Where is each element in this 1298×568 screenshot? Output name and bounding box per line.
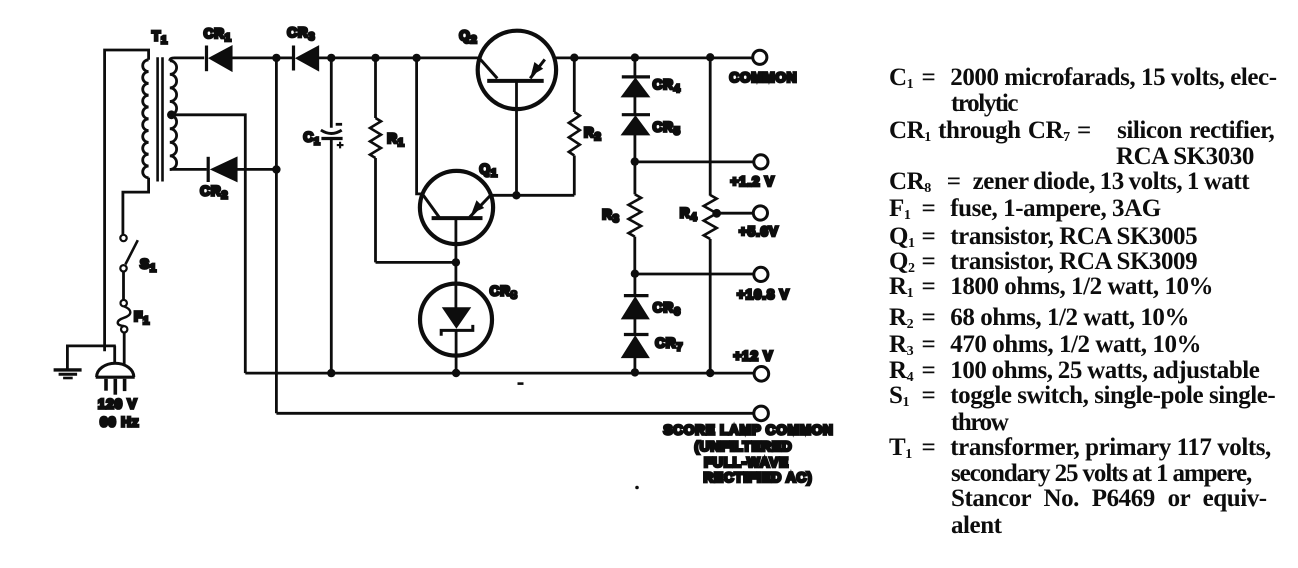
- svg-text:Q2: Q2: [459, 28, 477, 46]
- svg-text:T1: T1: [152, 28, 168, 46]
- resistor R4: [704, 57, 717, 373]
- resistor R2: [569, 58, 580, 195]
- stray mark 2: [635, 486, 639, 490]
- svg-text:R1: R1: [387, 131, 404, 149]
- wire top rail to Q1 left lead: [417, 58, 422, 194]
- wire CR4 to CR5: [634, 97, 637, 115]
- node secondary center tap: [167, 110, 176, 119]
- transformer primary winding: [143, 60, 149, 178]
- wire ground tap: [67, 346, 115, 369]
- svg-text:S1: S1: [140, 256, 157, 274]
- resistor R3: [629, 194, 642, 273]
- wire secondary bottom lead: [170, 168, 207, 171]
- terminal +5.6V: [753, 206, 767, 220]
- switch S1: [120, 235, 138, 272]
- transistor Q1: [420, 171, 493, 244]
- wire Q1 base lead down to CR8: [454, 218, 457, 308]
- wire score lamp line: [276, 412, 753, 415]
- node R4 tap: [712, 209, 721, 218]
- svg-text:+5.6V: +5.6V: [739, 224, 779, 239]
- wire bottom rail +12V: [245, 372, 754, 375]
- node junction top rail x276: [272, 54, 280, 62]
- wire primary bottom lead: [123, 178, 149, 235]
- zener diode CR8: [420, 284, 492, 373]
- terminal +10.8V: [754, 267, 768, 281]
- node junction bottom rail CR8: [452, 369, 460, 377]
- node junction top rail R1: [371, 54, 379, 62]
- wire top rail CR3 to Q2: [318, 57, 478, 60]
- wire unfiltered DC vertical x276: [275, 58, 278, 413]
- wire top rail Q2 to COMMON terminal: [555, 57, 752, 60]
- svg-text:(UNFILTERED: (UNFILTERED: [695, 439, 793, 454]
- wire F1 to plug: [123, 333, 126, 367]
- svg-text:120 V: 120 V: [98, 397, 137, 412]
- diode CR7: [622, 335, 648, 358]
- svg-text:F1: F1: [134, 309, 150, 327]
- wire Q1 emitter to R2 bottom: [491, 194, 574, 197]
- svg-text:R3: R3: [602, 207, 619, 225]
- svg-text:CR6: CR6: [653, 300, 681, 318]
- wire CR1 to CR3: [232, 57, 292, 60]
- svg-text:C1: C1: [304, 129, 321, 147]
- wire primary top lead: [105, 50, 149, 351]
- node junction top rail Q1 branch: [412, 54, 420, 62]
- wire CR7 to bottom rail: [634, 357, 637, 372]
- capacitor C1: [321, 58, 344, 373]
- svg-text:RECTIFIED AC): RECTIFIED AC): [704, 470, 813, 485]
- node junction +1.2V: [631, 157, 639, 165]
- svg-text:+12 V: +12 V: [734, 348, 774, 363]
- diode CR6: [622, 274, 648, 319]
- svg-text:CR8: CR8: [490, 284, 518, 302]
- terminal +1.2V: [754, 155, 768, 169]
- wire CR6 to CR7: [634, 319, 637, 335]
- diode CR2: [208, 157, 237, 182]
- node junction Q2 collector: [512, 191, 520, 199]
- transformer core: [158, 57, 163, 181]
- fuse F1: [118, 300, 131, 333]
- stray mark 1: [518, 382, 524, 385]
- svg-text:+1.2 V: +1.2 V: [731, 174, 775, 189]
- svg-text:CR3: CR3: [287, 25, 315, 43]
- svg-text:R2: R2: [584, 125, 601, 143]
- wire CR5 to R3: [634, 135, 637, 195]
- node junction top rail R4: [706, 53, 714, 61]
- node junction top rail C1: [327, 54, 335, 62]
- diode CR1: [207, 46, 232, 72]
- node junction R1 Q1: [452, 258, 460, 266]
- PARTS LIST: [889, 65, 1277, 90]
- wire center tap to bottom rail: [171, 115, 245, 373]
- svg-text:CR2: CR2: [200, 184, 228, 202]
- svg-text:+10.8 V: +10.8 V: [737, 287, 790, 302]
- wire R1 bottom to Q1 base node: [376, 261, 456, 264]
- svg-text:CR7: CR7: [655, 336, 683, 354]
- svg-text:CR1: CR1: [204, 26, 232, 44]
- wire secondary top lead: [170, 58, 204, 61]
- wire +10.8V line: [635, 273, 754, 276]
- node junction +10.8V: [631, 270, 639, 278]
- svg-text:SCORE LAMP COMMON: SCORE LAMP COMMON: [664, 422, 834, 437]
- wire plug left lead: [113, 346, 116, 366]
- svg-text:CR5: CR5: [653, 120, 681, 138]
- node junction bottom rail CR7: [631, 368, 639, 376]
- node junction CR2: [272, 165, 280, 173]
- resistor R1: [370, 58, 381, 263]
- diode CR4: [622, 58, 650, 97]
- plug P1: [96, 363, 135, 395]
- node junction bottom rail C1: [327, 369, 335, 377]
- wire S1 to F1: [122, 272, 125, 301]
- wire Q2 collector down: [515, 81, 518, 195]
- node junction top rail R2: [570, 54, 578, 62]
- diode CR5: [622, 115, 650, 135]
- wire CR2 to x276 vertical: [237, 168, 277, 171]
- svg-text:Q1: Q1: [480, 162, 498, 180]
- wire +1.2V line: [635, 160, 754, 163]
- svg-text:60 Hz: 60 Hz: [100, 415, 139, 430]
- ground: [54, 370, 82, 378]
- transformer T1: [105, 50, 177, 351]
- node junction bottom rail R4: [706, 369, 714, 377]
- svg-text:CR4: CR4: [653, 77, 681, 95]
- svg-text:FULL-WAVE: FULL-WAVE: [704, 455, 789, 470]
- diode CR3: [294, 46, 319, 71]
- terminal +12V: [754, 367, 769, 382]
- node junction top rail CR4: [631, 53, 639, 61]
- terminal COMMON: [753, 50, 767, 64]
- terminal SCORE LAMP COMMON: [754, 406, 769, 421]
- transformer secondary winding: [170, 61, 177, 170]
- svg-text:COMMON: COMMON: [730, 70, 798, 85]
- wire R4 tap to +5.6V terminal: [717, 212, 753, 215]
- transistor Q2: [478, 31, 556, 109]
- svg-text:R4: R4: [680, 205, 698, 223]
